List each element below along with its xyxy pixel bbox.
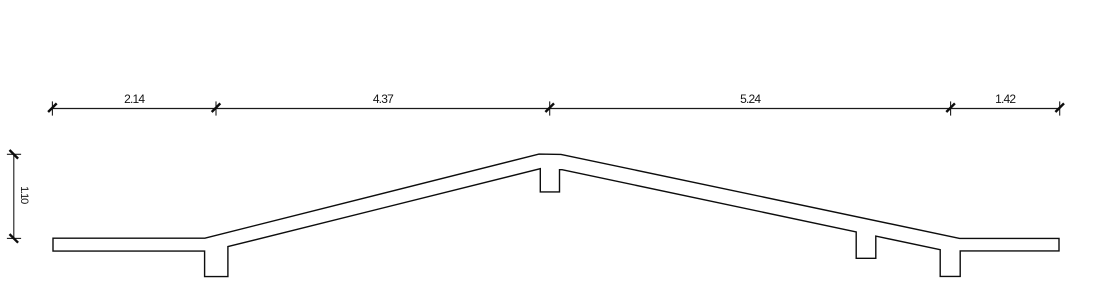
horizontal dimension line <box>52 108 1059 110</box>
svg-text:2.14: 2.14 <box>124 92 145 106</box>
svg-text:4.37: 4.37 <box>373 92 394 106</box>
tick 4 (x=950.6) <box>950 101 952 115</box>
roof slab section outline <box>53 154 1059 277</box>
bottom tick <box>7 237 21 239</box>
tick 3 (x=549.7) <box>549 101 551 115</box>
vertical dimension line <box>13 154 15 238</box>
tick 2 (x=216) <box>215 101 217 115</box>
svg-text:1.10: 1.10 <box>18 186 30 204</box>
svg-text:5.24: 5.24 <box>740 92 761 106</box>
tick 1 (x=52.4) <box>51 101 53 115</box>
top tick <box>7 153 21 155</box>
tick 5 (x=1059.7) <box>1059 101 1061 115</box>
svg-text:1.42: 1.42 <box>995 92 1016 106</box>
